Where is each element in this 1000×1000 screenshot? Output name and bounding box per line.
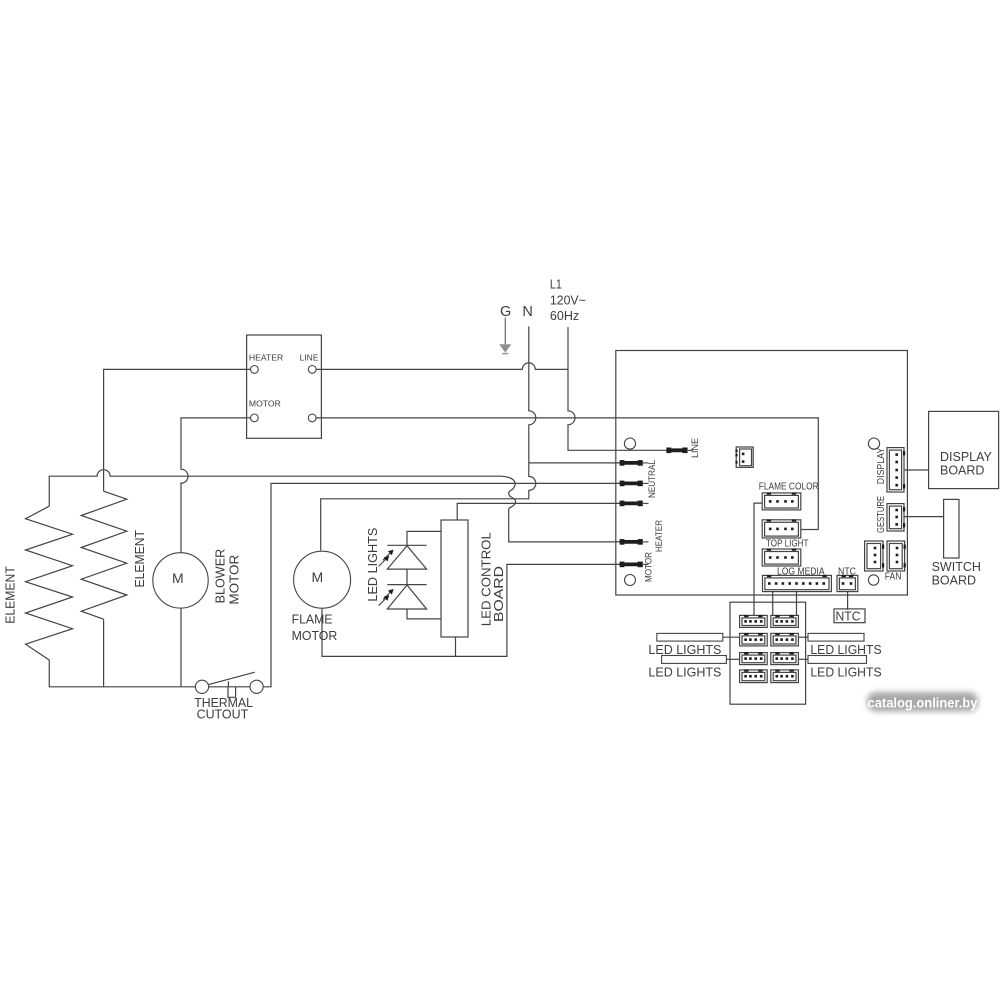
svg-text:HEATER: HEATER: [249, 352, 283, 362]
svg-text:MOTOR: MOTOR: [228, 555, 242, 605]
wire relay HEATER terminal left then down to element2: [104, 369, 251, 491]
main control board U1 outline: [616, 351, 908, 596]
connector FLAME COLOR: [762, 493, 801, 510]
pin NEUTRAL 1: [616, 460, 649, 466]
mounting hole top-right: [868, 438, 879, 449]
relay terminal motor-left: [251, 414, 259, 422]
wire heater bus: element1 top, hop over element2 lead, turn down with hops, to HEATER pin: [49, 470, 621, 542]
wire N branch to NEUTRAL pin1: [529, 462, 621, 464]
relay terminal motor-right: [308, 414, 316, 422]
svg-text:FAN: FAN: [885, 572, 902, 583]
connector LED block col2 row2: [771, 633, 799, 646]
wire bar left1 to block: [723, 636, 740, 638]
thermal cutout switch: [195, 672, 263, 697]
blower motor M1: [153, 553, 208, 608]
connector GESTURE: [887, 504, 905, 531]
LED control board label: [479, 532, 507, 626]
NTC thermistor box: [834, 609, 865, 623]
svg-text:ELEMENT: ELEMENT: [3, 566, 17, 624]
wire B: thermal cutout right terminal up and right to NEUTRAL pin2: [263, 483, 621, 686]
wire LED link: [387, 569, 426, 585]
LED distribution block outline: [730, 602, 806, 704]
svg-text:LED LIGHTS: LED LIGHTS: [365, 527, 380, 601]
connector DISPLAY: [887, 448, 905, 492]
pin HEATER: [616, 539, 649, 545]
resistor element R2 zigzag: [81, 491, 127, 619]
flame motor label: [292, 612, 338, 643]
svg-text:LED LIGHTS: LED LIGHTS: [810, 642, 882, 657]
connector TOP LIGHT: [762, 519, 801, 538]
wire LED bottom to control board: [407, 609, 441, 619]
LED LIGHTS bar right 1: [808, 633, 864, 641]
wire FLAME COLOR connector to LED block: [754, 503, 762, 615]
connector LED block col2 row4: [771, 670, 799, 683]
wire NTC connector to NTC box: [847, 592, 849, 610]
svg-text:SWITCH: SWITCH: [932, 560, 981, 574]
connector LED block col2 row3: [771, 652, 799, 664]
blower motor label: [213, 549, 241, 605]
wire bar right1 to block: [798, 636, 808, 638]
mounting hole top-left: [624, 438, 635, 449]
LED LIGHTS bar right 2: [808, 656, 867, 664]
mounting hole bottom-left: [625, 575, 636, 586]
LED LIGHTS bar left 1: [657, 633, 723, 641]
resistor element R1 zigzag: [26, 506, 73, 660]
relay K1 box: [247, 335, 322, 438]
svg-text:LINE: LINE: [300, 352, 319, 362]
wire blower motor bottom lead: [180, 608, 182, 687]
wire bottom element bus to thermal cutout: [49, 660, 256, 687]
connector LED block col1 row2: [740, 633, 768, 646]
connector FAN left: [865, 541, 885, 571]
svg-text:BOARD: BOARD: [491, 566, 506, 622]
ground: [499, 318, 511, 354]
svg-text:BLOWER: BLOWER: [213, 549, 227, 604]
relay terminal heater: [251, 366, 259, 374]
display board box: [929, 411, 999, 488]
switch board label: [932, 560, 981, 587]
svg-text:DISPLAY: DISPLAY: [876, 448, 887, 485]
connector LED block col2 row1: [771, 615, 799, 627]
connector NTC: [837, 575, 858, 592]
connector LED block col1 row4: [740, 670, 768, 683]
wire LED board bottom stub: [455, 637, 457, 656]
wire LED control board top to NEUTRAL pin3: [457, 503, 621, 520]
thermal cutout label: [194, 696, 253, 721]
svg-text:60Hz: 60Hz: [550, 308, 579, 323]
connector J1 (2-pin, unlabeled): [735, 447, 753, 467]
svg-text:BOARD: BOARD: [932, 573, 976, 587]
switch board bar: [944, 499, 959, 558]
wire bar right2 to block: [798, 658, 808, 660]
wire DISPLAY connector to display board: [904, 469, 929, 471]
connector LED block col1 row1: [740, 615, 768, 627]
pin LINE: [666, 448, 693, 454]
svg-text:N: N: [522, 304, 532, 320]
svg-text:M: M: [172, 570, 184, 586]
pin NEUTRAL 3: [616, 501, 649, 507]
svg-text:NTC: NTC: [836, 608, 861, 623]
svg-text:TOP LIGHT: TOP LIGHT: [766, 539, 808, 550]
pin NEUTRAL 2: [616, 481, 649, 487]
display board label: [940, 450, 993, 477]
svg-text:FLAME: FLAME: [292, 612, 333, 627]
wires LOG MEDIA to LED block: [773, 592, 797, 616]
wire relay MOTOR terminal left, down to blower motor, hop over heater bus: [181, 418, 251, 553]
LED D2: [387, 585, 426, 609]
svg-text:120V~: 120V~: [550, 293, 586, 308]
svg-text:CUTOUT: CUTOUT: [197, 708, 249, 722]
LED control board box: [441, 520, 468, 637]
svg-text:LED LIGHTS: LED LIGHTS: [648, 642, 721, 657]
wire relay LINE terminal to L1 with hop over N: [316, 363, 568, 370]
connector FAN right: [887, 541, 906, 571]
svg-text:MOTOR: MOTOR: [644, 552, 654, 582]
wire element2 bottom lead: [103, 619, 105, 687]
svg-text:MOTOR: MOTOR: [292, 628, 338, 643]
svg-text:L1: L1: [550, 277, 562, 292]
svg-text:GESTURE: GESTURE: [876, 496, 887, 533]
mounting hole bottom-right / FAN hole: [868, 575, 878, 585]
svg-text:HEATER: HEATER: [654, 520, 664, 552]
watermark catalog.onliner.by: [867, 692, 978, 712]
LED LIGHTS bar left 2: [662, 656, 727, 664]
svg-text:DISPLAY: DISPLAY: [940, 450, 993, 464]
connector LED block col1 row3: [740, 652, 768, 664]
connector LOG MEDIA: [763, 575, 832, 592]
svg-text:LED LIGHTS: LED LIGHTS: [648, 665, 721, 680]
wire motor pin: flame motor bottom rail up to MOTOR pin: [322, 564, 621, 656]
svg-text:LED LIGHTS: LED LIGHTS: [810, 665, 882, 680]
flame motor M2: [294, 551, 351, 608]
svg-text:BOARD: BOARD: [940, 463, 984, 477]
connector below TOP LIGHT: [762, 549, 801, 566]
wire relay motor-right terminal to TOP LIGHT connector on board: [316, 418, 818, 530]
relay terminal line: [308, 366, 316, 374]
LED D1: [387, 546, 426, 569]
wire LED top rail to control board: [387, 531, 441, 545]
wire L1: down, hop over motor wire, corner right to LINE pin: [568, 327, 668, 450]
node L1 voltage label: [550, 277, 586, 323]
LED D1 arrows: [379, 550, 394, 567]
svg-text:LINE: LINE: [690, 438, 700, 458]
svg-text:NEUTRAL: NEUTRAL: [647, 460, 657, 498]
svg-text:ELEMENT: ELEMENT: [133, 530, 147, 588]
wire bar left2 to block: [726, 658, 739, 660]
svg-text:MOTOR: MOTOR: [249, 399, 281, 409]
svg-text:catalog.onliner.by: catalog.onliner.by: [868, 695, 978, 711]
svg-text:M: M: [311, 569, 323, 585]
wire N: down, hop over motor wire, hop over wire B, left to flame motor top: [321, 326, 536, 550]
wire GESTURE connector to switch board: [904, 516, 944, 518]
pin MOTOR: [616, 562, 649, 568]
LED D2 arrows: [379, 589, 394, 606]
svg-text:FLAME COLOR: FLAME COLOR: [759, 482, 819, 493]
